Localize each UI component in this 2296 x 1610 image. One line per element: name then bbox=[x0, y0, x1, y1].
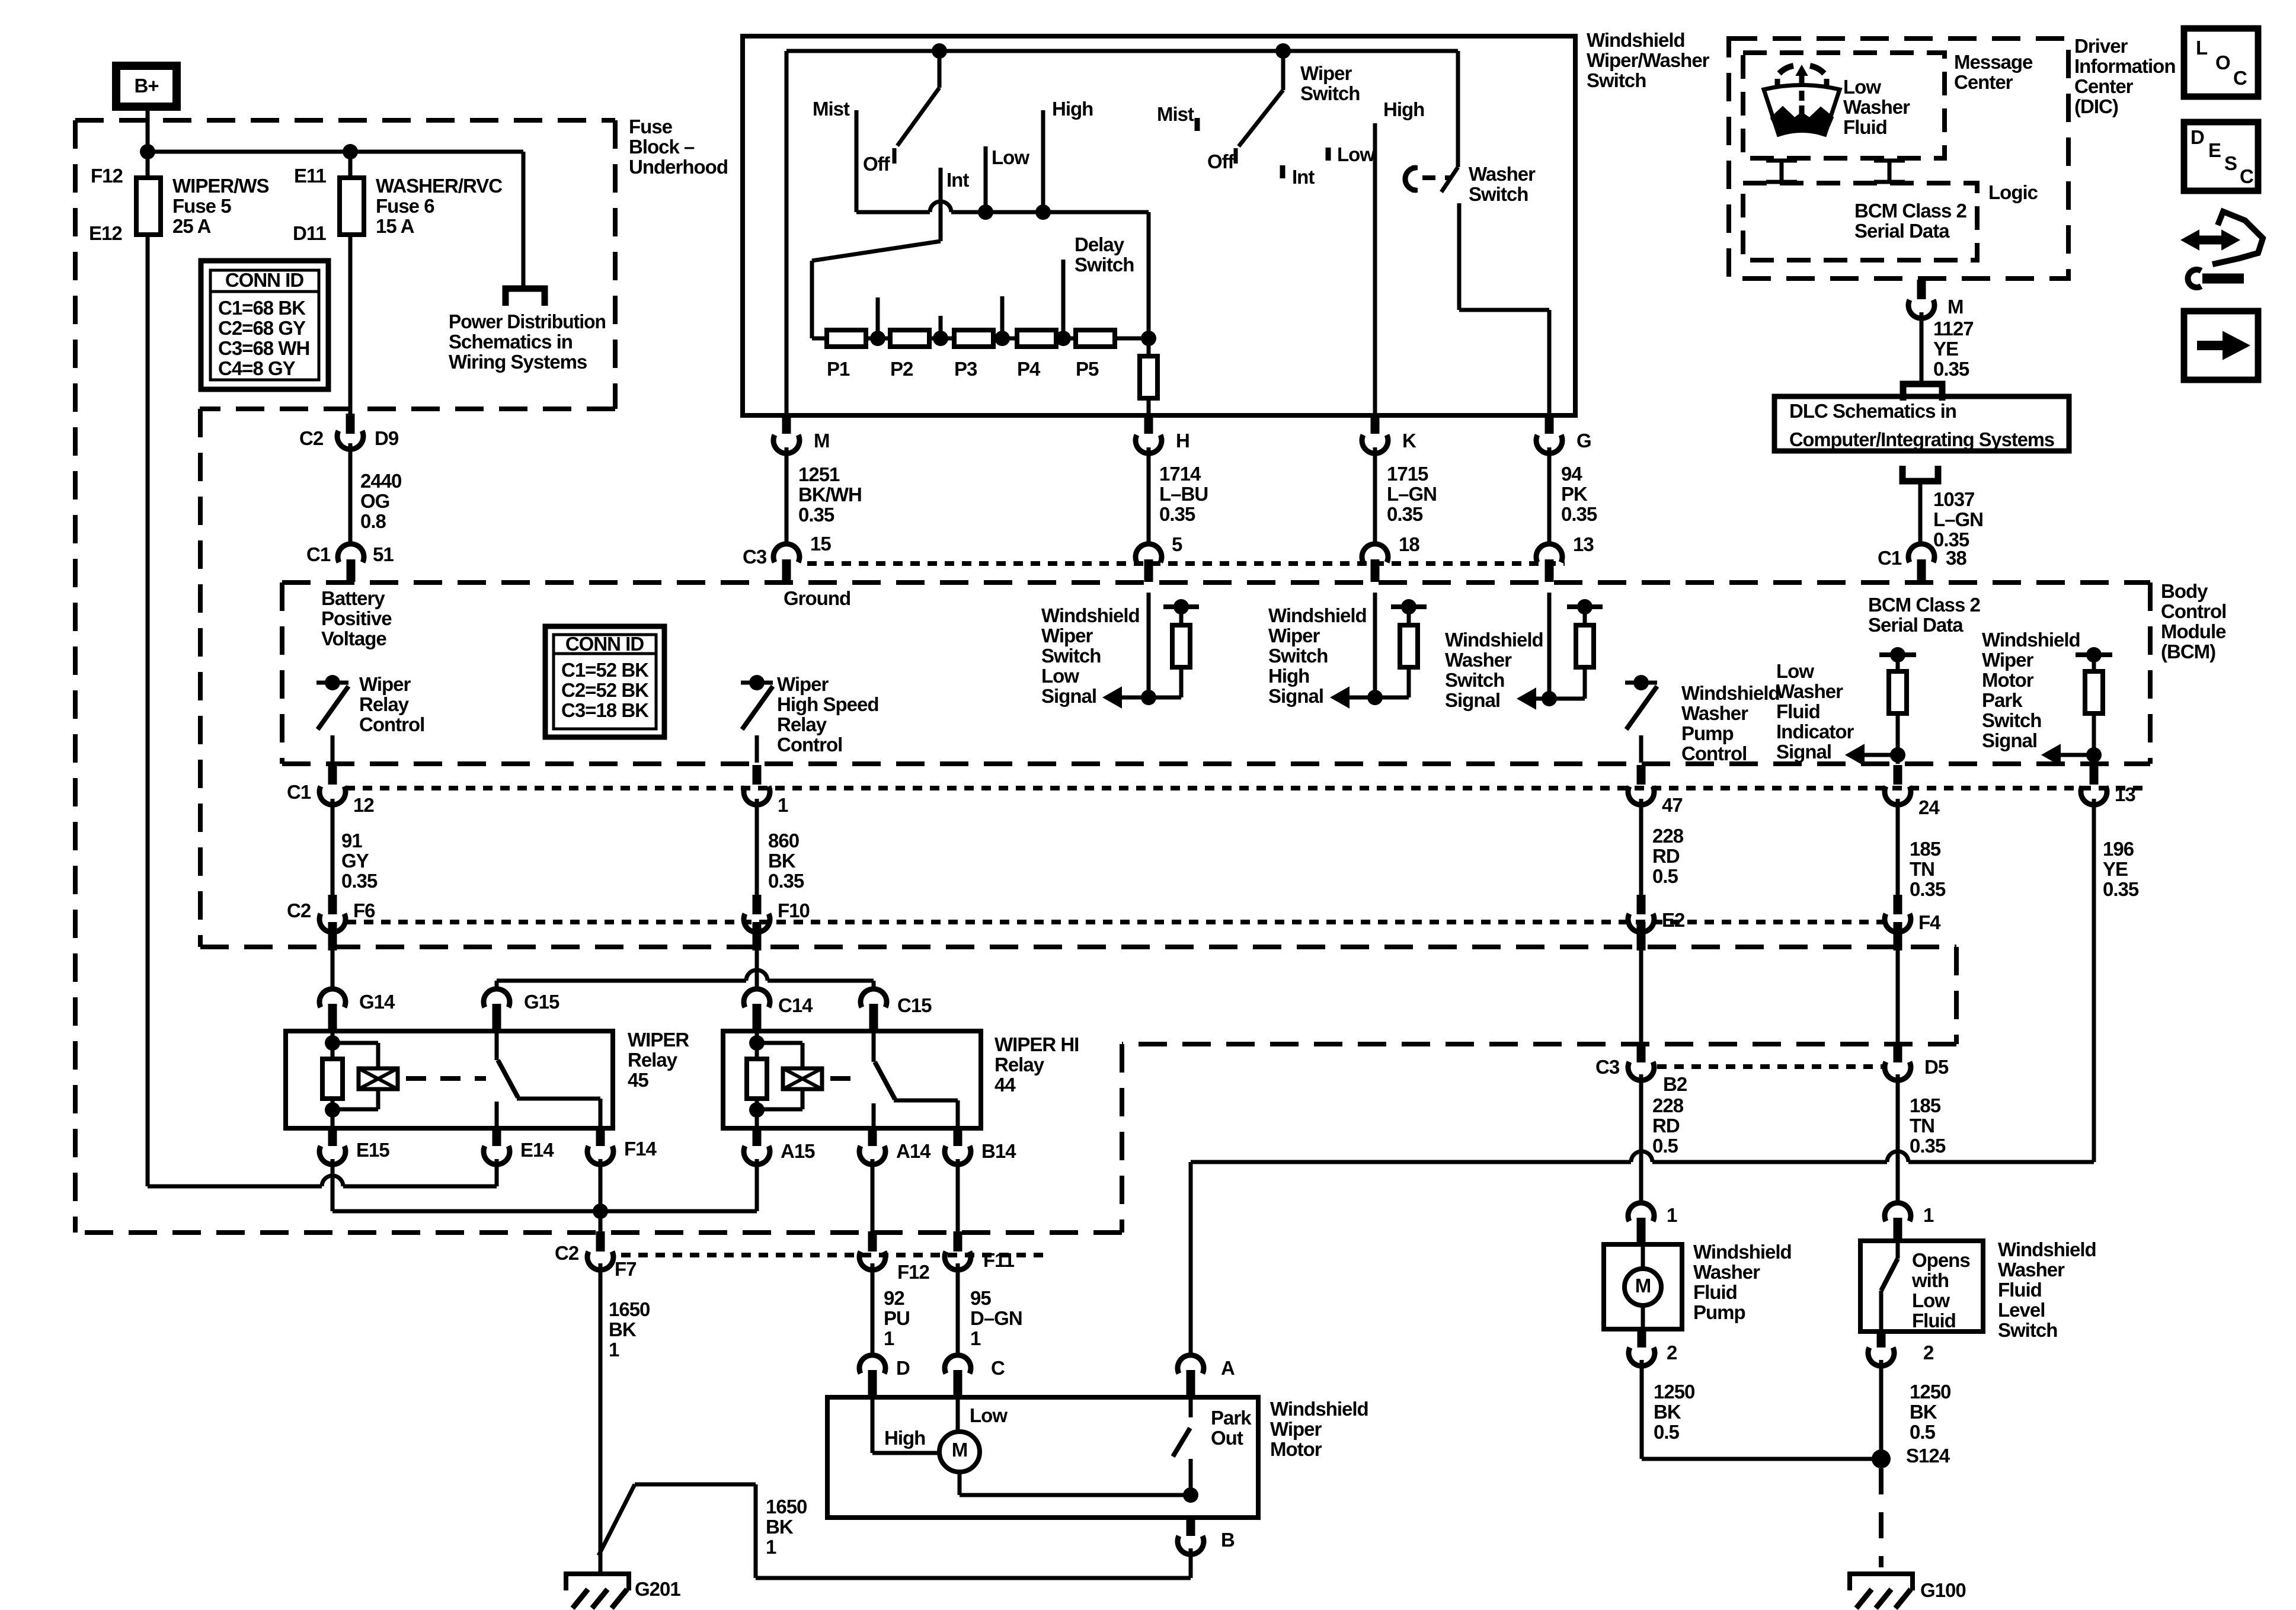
svg-text:15 A: 15 A bbox=[376, 215, 414, 237]
svg-text:0.5: 0.5 bbox=[1652, 1135, 1678, 1157]
svg-text:L–BU: L–BU bbox=[1159, 483, 1208, 505]
svg-text:BK: BK bbox=[766, 1516, 794, 1538]
svg-text:Low: Low bbox=[992, 146, 1029, 168]
svg-text:(BCM): (BCM) bbox=[2161, 641, 2215, 662]
motor M armature bbox=[939, 1432, 980, 1472]
wire 185 TN 0.35 into fuse block bbox=[1896, 950, 1900, 1043]
wire feed to power distribution reference bbox=[522, 152, 526, 287]
svg-text:2: 2 bbox=[1923, 1342, 1934, 1363]
svg-text:Low: Low bbox=[1337, 143, 1375, 165]
svg-text:Fuse 6: Fuse 6 bbox=[376, 195, 434, 217]
svg-text:BCM Class 2: BCM Class 2 bbox=[1868, 594, 1981, 616]
svg-text:Windshield: Windshield bbox=[1445, 629, 1543, 651]
position Int tick bbox=[1280, 165, 1285, 178]
BCM input pull-up resistor bbox=[1391, 604, 1427, 609]
svg-text:95: 95 bbox=[970, 1287, 991, 1309]
connector pin 2 (washer pump) bbox=[1638, 1330, 1646, 1347]
fuse block bottom inline connector line (dotted) bbox=[621, 1253, 1043, 1257]
contact Off stub bbox=[893, 148, 897, 164]
svg-text:0.35: 0.35 bbox=[1387, 503, 1423, 525]
BCM bottom inline connector line (dotted) bbox=[346, 786, 2145, 790]
svg-text:CONN ID: CONN ID bbox=[565, 633, 644, 655]
wire 228 RD 0.5 to pump bbox=[1639, 1074, 1643, 1205]
svg-text:C1: C1 bbox=[306, 543, 331, 565]
connector terminal G (wiper/washer switch) bbox=[1545, 417, 1554, 434]
svg-text:BK/WH: BK/WH bbox=[798, 484, 862, 505]
connector pin 1 (washer pump) bbox=[1628, 1203, 1654, 1221]
arrow signal into logic bbox=[2058, 753, 2094, 757]
svg-text:Control: Control bbox=[777, 734, 842, 756]
svg-text:M: M bbox=[952, 1439, 968, 1461]
svg-text:B14: B14 bbox=[981, 1140, 1016, 1162]
svg-text:Signal: Signal bbox=[1268, 685, 1323, 707]
svg-text:0.35: 0.35 bbox=[1159, 503, 1195, 525]
connector E15 (relay output) bbox=[328, 1129, 337, 1146]
wire S124 to G100 (dashed) bbox=[1879, 1468, 1884, 1567]
contact High bbox=[1041, 110, 1045, 212]
contact High (position bank) to K bbox=[1373, 123, 1377, 415]
connector terminal K (wiper/washer switch) bbox=[1371, 417, 1380, 434]
wire E15 to A15 bus bbox=[331, 1159, 335, 1211]
svg-text:M: M bbox=[1948, 296, 1964, 318]
svg-text:YE: YE bbox=[2103, 858, 2128, 880]
resistor P2 bbox=[890, 330, 929, 347]
pump motor M bbox=[1641, 1244, 1645, 1270]
svg-text:13: 13 bbox=[2115, 783, 2135, 805]
svg-text:Windshield: Windshield bbox=[1998, 1238, 2096, 1260]
svg-text:0.35: 0.35 bbox=[1933, 358, 1969, 380]
icon route arrows with wrench bbox=[2196, 236, 2224, 245]
svg-text:M: M bbox=[1635, 1275, 1651, 1297]
svg-text:G: G bbox=[1576, 430, 1591, 452]
relay 45 switch bbox=[495, 1031, 499, 1060]
off-page reference bracket out of DLC box bbox=[1902, 466, 1938, 481]
svg-text:L–GN: L–GN bbox=[1933, 508, 1983, 530]
svg-text:Park: Park bbox=[1982, 689, 2023, 711]
svg-text:D–GN: D–GN bbox=[970, 1307, 1022, 1329]
svg-text:S: S bbox=[2224, 152, 2237, 174]
connector B14 (relay output) bbox=[954, 1129, 962, 1146]
connector A15 (relay output) bbox=[753, 1129, 762, 1146]
svg-text:L: L bbox=[2196, 37, 2208, 59]
svg-text:E11: E11 bbox=[294, 165, 327, 187]
battery feed B+ box bbox=[116, 66, 177, 107]
svg-text:Switch: Switch bbox=[1300, 82, 1360, 104]
resistor P5 bbox=[1076, 330, 1115, 347]
wire B+ to fuse feed bus bbox=[146, 107, 150, 178]
windshield wiper motor box bbox=[827, 1397, 1258, 1518]
BCM pull-up resistor on signal line bbox=[1879, 652, 1916, 657]
park signal wire 196 YE crossing (hops) bbox=[1908, 1160, 2094, 1164]
svg-text:1: 1 bbox=[609, 1339, 619, 1361]
svg-text:0.35: 0.35 bbox=[2103, 878, 2139, 900]
svg-text:Logic: Logic bbox=[1988, 181, 2038, 203]
svg-text:Int: Int bbox=[1292, 166, 1315, 188]
svg-text:A15: A15 bbox=[781, 1140, 815, 1162]
svg-text:BK: BK bbox=[609, 1318, 637, 1340]
svg-text:Fluid: Fluid bbox=[1776, 700, 1820, 722]
contact Low bbox=[984, 146, 988, 212]
park switch bbox=[1189, 1397, 1193, 1417]
connector A14 (relay output) bbox=[868, 1129, 877, 1146]
svg-text:TN: TN bbox=[1910, 1115, 1934, 1137]
svg-text:Washer: Washer bbox=[1843, 96, 1910, 118]
fuse block underhood dashed outline (top box + lower relay section) bbox=[75, 118, 615, 123]
svg-text:15: 15 bbox=[810, 533, 831, 555]
relay K45 WIPER Relay box bbox=[286, 1031, 613, 1128]
svg-text:Signal: Signal bbox=[1982, 729, 2037, 751]
CONN ID table of BCM connectors bbox=[545, 626, 664, 737]
svg-text:WASHER/RVC: WASHER/RVC bbox=[376, 175, 502, 197]
connector pin 13 (BCM output) bbox=[2090, 765, 2099, 785]
svg-text:185: 185 bbox=[1910, 838, 1941, 860]
svg-text:0.35: 0.35 bbox=[1910, 878, 1946, 900]
svg-text:C15: C15 bbox=[897, 994, 932, 1016]
svg-text:E12: E12 bbox=[89, 222, 122, 244]
wire 91 GY 0.35 bbox=[331, 799, 335, 898]
svg-text:P2: P2 bbox=[890, 358, 913, 380]
svg-text:Wiper: Wiper bbox=[359, 673, 411, 695]
svg-text:Control: Control bbox=[2161, 600, 2226, 622]
svg-text:BCM Class 2: BCM Class 2 bbox=[1854, 200, 1967, 222]
connector pin 24 (BCM output) bbox=[1894, 765, 1902, 785]
wire motor low input bbox=[956, 1397, 960, 1433]
connector terminal C (wiper motor low) bbox=[945, 1355, 971, 1374]
svg-text:Low: Low bbox=[1041, 665, 1079, 687]
connector terminal M (DIC) bbox=[1917, 280, 1926, 299]
svg-text:Wiring Systems: Wiring Systems bbox=[449, 351, 587, 373]
icon LOC box bbox=[2184, 28, 2258, 97]
connector G15 (wiper relay common) bbox=[484, 989, 510, 1007]
svg-text:0.5: 0.5 bbox=[1910, 1421, 1936, 1443]
wire Int to delay resistor chain bbox=[812, 241, 941, 261]
svg-text:94: 94 bbox=[1561, 463, 1582, 485]
relay 44 suppressor branch bbox=[757, 1041, 802, 1045]
svg-text:45: 45 bbox=[628, 1069, 648, 1091]
svg-text:Switch: Switch bbox=[1998, 1319, 2057, 1341]
svg-text:L–GN: L–GN bbox=[1387, 483, 1437, 505]
svg-text:Control: Control bbox=[359, 713, 424, 735]
svg-text:Windshield: Windshield bbox=[1693, 1241, 1792, 1263]
BCM pull-up resistor on signal line bbox=[2076, 652, 2112, 657]
svg-text:1: 1 bbox=[1923, 1204, 1934, 1226]
BCM input pull-up resistor bbox=[1163, 604, 1199, 609]
svg-text:C: C bbox=[991, 1357, 1005, 1379]
connector C14 (wiper hi relay coil +) bbox=[744, 989, 770, 1007]
svg-text:GY: GY bbox=[341, 850, 369, 872]
svg-text:High: High bbox=[1268, 665, 1309, 687]
connector pin 13 (BCM washer switch signal) bbox=[1536, 544, 1562, 562]
windshield wiper/washer switch box bbox=[743, 36, 1575, 415]
svg-text:Center: Center bbox=[2074, 75, 2134, 97]
icon DESC box bbox=[2184, 122, 2258, 191]
svg-text:C1=52 BK: C1=52 BK bbox=[561, 659, 649, 681]
svg-text:G201: G201 bbox=[635, 1578, 680, 1600]
svg-text:H: H bbox=[1176, 430, 1189, 452]
svg-text:F4: F4 bbox=[1918, 911, 1941, 933]
svg-text:A14: A14 bbox=[896, 1140, 931, 1162]
svg-text:92: 92 bbox=[884, 1287, 904, 1309]
svg-text:C2=68 GY: C2=68 GY bbox=[218, 317, 306, 339]
wire 228 RD 0.5 bbox=[1639, 799, 1643, 913]
contact Mist bbox=[855, 110, 859, 212]
svg-text:Mist: Mist bbox=[1157, 103, 1194, 125]
svg-text:0.35: 0.35 bbox=[768, 870, 804, 892]
svg-text:Off: Off bbox=[863, 153, 891, 175]
svg-text:WIPER: WIPER bbox=[628, 1029, 689, 1051]
svg-text:Wiper: Wiper bbox=[1270, 1418, 1322, 1440]
svg-text:1: 1 bbox=[766, 1536, 776, 1558]
connector terminal D (wiper motor high) bbox=[859, 1355, 885, 1374]
wire 1250 BK 0.5 pump to S124 bbox=[1640, 1360, 1644, 1459]
svg-text:C1=68 BK: C1=68 BK bbox=[218, 297, 306, 319]
svg-text:Block –: Block – bbox=[629, 136, 695, 158]
connector C3 pin 15 (BCM ground) bbox=[773, 544, 800, 562]
svg-text:Switch: Switch bbox=[1445, 669, 1504, 691]
wire 1714 L-BU 0.35 bbox=[1147, 447, 1151, 546]
BCM driver switch bbox=[316, 681, 348, 685]
svg-text:Motor: Motor bbox=[1982, 669, 2034, 691]
delay switch contact bbox=[1061, 260, 1066, 338]
splice S124 bbox=[1872, 1449, 1891, 1468]
svg-text:Windshield: Windshield bbox=[1270, 1398, 1368, 1420]
wire 2440 OG 0.8 bbox=[348, 443, 353, 546]
wire 1715 L-GN 0.35 bbox=[1373, 447, 1377, 546]
wire F6 to G14 bbox=[331, 950, 335, 988]
wire B14 to F11 bbox=[956, 1159, 960, 1231]
svg-text:2: 2 bbox=[1667, 1342, 1677, 1363]
svg-text:C1: C1 bbox=[287, 781, 311, 803]
svg-text:Fluid: Fluid bbox=[1693, 1281, 1737, 1303]
svg-text:Positive: Positive bbox=[321, 607, 392, 629]
svg-text:1715: 1715 bbox=[1387, 463, 1428, 485]
svg-text:B: B bbox=[1221, 1529, 1235, 1551]
svg-text:860: 860 bbox=[768, 830, 799, 852]
svg-text:Low: Low bbox=[1843, 76, 1881, 98]
svg-text:High: High bbox=[1052, 98, 1093, 120]
svg-text:Ground: Ground bbox=[784, 587, 850, 609]
washer switch feed bbox=[1456, 51, 1460, 167]
connector pin 1 (fluid level switch) bbox=[1885, 1203, 1911, 1221]
relay 45 coil branch bbox=[331, 1031, 335, 1128]
wire 860 BK 0.35 bbox=[755, 799, 759, 898]
svg-text:Relay: Relay bbox=[994, 1054, 1045, 1076]
svg-text:12: 12 bbox=[353, 794, 374, 816]
svg-text:Information: Information bbox=[2074, 55, 2175, 77]
svg-text:F12: F12 bbox=[91, 165, 123, 187]
svg-text:13: 13 bbox=[1573, 533, 1594, 555]
windshield washer fluid level switch box bbox=[1860, 1241, 1983, 1331]
svg-text:P5: P5 bbox=[1076, 358, 1099, 380]
svg-text:High: High bbox=[1383, 98, 1424, 120]
DLC schematics reference box bbox=[1774, 396, 2069, 451]
resistor P4 bbox=[1017, 330, 1056, 347]
wire battery feed to E14 (hops E15 wire) bbox=[148, 1185, 322, 1189]
svg-text:C: C bbox=[2240, 165, 2253, 187]
svg-text:0.35: 0.35 bbox=[1910, 1135, 1946, 1157]
wire switch feed bus bbox=[786, 49, 1458, 53]
svg-text:Message: Message bbox=[1954, 51, 2033, 73]
contact Int wire bbox=[939, 168, 943, 241]
svg-text:C1: C1 bbox=[1878, 547, 1902, 569]
svg-text:Low: Low bbox=[970, 1404, 1008, 1426]
svg-text:Fuse 5: Fuse 5 bbox=[172, 195, 231, 217]
svg-text:Opens: Opens bbox=[1912, 1249, 1970, 1271]
svg-text:D: D bbox=[896, 1357, 910, 1379]
svg-text:38: 38 bbox=[1946, 547, 1966, 569]
svg-text:Washer: Washer bbox=[1469, 163, 1536, 185]
svg-text:BK: BK bbox=[768, 850, 796, 872]
svg-text:Indicator: Indicator bbox=[1776, 721, 1854, 742]
low washer fluid telltale icon bbox=[1764, 85, 1840, 135]
svg-text:Switch: Switch bbox=[1075, 254, 1134, 276]
wire G15-C15 link bbox=[495, 981, 499, 991]
svg-text:F11: F11 bbox=[983, 1249, 1015, 1271]
connector G14 (wiper relay coil +) bbox=[319, 989, 346, 1007]
svg-text:DLC Schematics in: DLC Schematics in bbox=[1789, 400, 1956, 422]
connector terminal H (wiper/washer switch) bbox=[1144, 417, 1153, 434]
svg-text:Low: Low bbox=[1912, 1289, 1950, 1311]
svg-text:0.5: 0.5 bbox=[1654, 1421, 1680, 1443]
svg-text:BK: BK bbox=[1910, 1401, 1937, 1423]
svg-text:Windshield: Windshield bbox=[1982, 629, 2080, 651]
wiper switch arm (mode contacts) bbox=[938, 51, 942, 88]
svg-text:5: 5 bbox=[1172, 533, 1182, 555]
svg-text:Power Distribution: Power Distribution bbox=[449, 311, 606, 332]
svg-text:C2: C2 bbox=[287, 900, 311, 921]
svg-text:Washer: Washer bbox=[1681, 702, 1748, 724]
windshield washer fluid pump box bbox=[1604, 1244, 1682, 1329]
wire 185 TN 0.35 bbox=[1896, 799, 1900, 913]
svg-text:25 A: 25 A bbox=[172, 215, 211, 237]
wire 196 YE 0.35 bbox=[2092, 799, 2096, 1162]
driver information center DIC dashed box bbox=[1729, 39, 2068, 279]
svg-text:Voltage: Voltage bbox=[321, 628, 386, 649]
off-page reference bracket into DLC box bbox=[1903, 384, 1942, 401]
connector pin 18 (BCM wiper high signal) bbox=[1362, 544, 1388, 562]
svg-text:WIPER HI: WIPER HI bbox=[994, 1033, 1079, 1055]
svg-text:Underhood: Underhood bbox=[629, 156, 728, 178]
relay 45 coil resistor bbox=[322, 1059, 343, 1099]
svg-text:Off: Off bbox=[1207, 151, 1235, 172]
svg-text:1: 1 bbox=[778, 794, 788, 816]
svg-text:C3=18 BK: C3=18 BK bbox=[561, 699, 649, 721]
links message center to logic bbox=[1780, 159, 1784, 183]
delay switch resistor chain P1-P5 bbox=[812, 337, 1149, 341]
svg-text:Wiper: Wiper bbox=[1982, 649, 2034, 671]
svg-text:G15: G15 bbox=[524, 991, 559, 1013]
connector F14 (relay output) bbox=[596, 1129, 605, 1146]
svg-text:C3: C3 bbox=[743, 546, 767, 568]
svg-text:18: 18 bbox=[1399, 533, 1419, 555]
fuse F6 WASHER/RVC 15A bbox=[348, 152, 353, 235]
resistor P3 bbox=[954, 330, 993, 347]
svg-text:P3: P3 bbox=[954, 358, 977, 380]
wire 1250 BK 0.5 level switch to S124 bbox=[1879, 1360, 1884, 1459]
connector C2 pin F6 (into fuse block) bbox=[331, 898, 335, 903]
svg-text:1714: 1714 bbox=[1159, 463, 1201, 485]
CONN ID table of fuse block connectors bbox=[201, 261, 328, 389]
svg-text:Switch: Switch bbox=[1982, 709, 2041, 731]
connector pin 2 (fluid level switch) bbox=[1877, 1333, 1886, 1347]
svg-text:Fluid: Fluid bbox=[1843, 116, 1887, 138]
svg-text:Center: Center bbox=[1954, 71, 2013, 93]
svg-text:TN: TN bbox=[1910, 858, 1934, 880]
svg-text:Level: Level bbox=[1998, 1299, 2045, 1321]
svg-text:24: 24 bbox=[1918, 796, 1940, 818]
svg-text:Relay: Relay bbox=[628, 1049, 678, 1071]
svg-text:Fuse: Fuse bbox=[629, 116, 673, 137]
svg-text:Switch: Switch bbox=[1587, 69, 1646, 91]
svg-text:O: O bbox=[2215, 52, 2230, 73]
svg-text:Wiper: Wiper bbox=[1300, 62, 1352, 84]
svg-text:Pump: Pump bbox=[1693, 1301, 1745, 1323]
svg-text:Mist: Mist bbox=[813, 98, 850, 120]
svg-text:1650: 1650 bbox=[609, 1298, 650, 1320]
svg-text:BK: BK bbox=[1654, 1401, 1681, 1423]
relay 44 coil symbol (boxed X) bbox=[783, 1068, 822, 1089]
svg-text:Control: Control bbox=[1681, 742, 1747, 764]
svg-text:Signal: Signal bbox=[1776, 741, 1831, 763]
off-page reference bracket to Power Distribution bbox=[506, 289, 545, 306]
svg-text:0.35: 0.35 bbox=[1561, 503, 1597, 525]
BCM input pull-up resistor bbox=[1567, 604, 1603, 609]
wiper switch position-indicator arm bbox=[1281, 51, 1285, 90]
wire 1650 BK 1 to G201 bbox=[599, 1263, 603, 1571]
washer switch actuator curl bbox=[1405, 168, 1416, 190]
svg-text:Body: Body bbox=[2161, 580, 2208, 602]
svg-text:Battery: Battery bbox=[321, 587, 385, 609]
connector pin F10 (into fuse block) bbox=[755, 898, 759, 903]
svg-text:C2=52 BK: C2=52 BK bbox=[561, 679, 649, 701]
svg-text:Motor: Motor bbox=[1270, 1438, 1322, 1460]
svg-text:F12: F12 bbox=[897, 1261, 930, 1283]
position Off stub bbox=[1234, 148, 1238, 164]
svg-text:F7: F7 bbox=[615, 1258, 637, 1280]
svg-text:51: 51 bbox=[373, 543, 394, 565]
svg-text:Delay: Delay bbox=[1075, 233, 1125, 255]
svg-text:Wiper: Wiper bbox=[1268, 625, 1320, 646]
connector C2 pin D9 (fuse block output) bbox=[346, 414, 355, 434]
svg-text:228: 228 bbox=[1652, 1094, 1684, 1116]
svg-text:1250: 1250 bbox=[1910, 1381, 1950, 1403]
svg-text:PU: PU bbox=[884, 1307, 910, 1329]
svg-text:D5: D5 bbox=[1924, 1056, 1949, 1078]
svg-text:Low: Low bbox=[1776, 660, 1814, 682]
wire A14 to F12 bbox=[871, 1159, 875, 1231]
connector pin 1 (BCM output) bbox=[753, 765, 762, 785]
svg-text:1: 1 bbox=[970, 1327, 981, 1349]
svg-text:RD: RD bbox=[1652, 845, 1680, 867]
svg-text:D: D bbox=[2191, 126, 2204, 148]
svg-text:WIPER/WS: WIPER/WS bbox=[172, 175, 269, 197]
svg-text:1: 1 bbox=[884, 1327, 894, 1349]
svg-text:Serial Data: Serial Data bbox=[1868, 614, 1964, 636]
svg-text:Signal: Signal bbox=[1445, 689, 1500, 711]
connector pin F4 (into fuse block) bbox=[1896, 898, 1900, 903]
svg-text:S124: S124 bbox=[1906, 1445, 1950, 1467]
fuse block inline connector line (dotted) bbox=[347, 920, 1888, 924]
svg-text:B+: B+ bbox=[134, 75, 158, 97]
connector terminal M (wiper/washer switch) bbox=[782, 417, 791, 434]
fuse block inline connector line at C3 (dotted) bbox=[1657, 1064, 1882, 1069]
svg-text:Windshield: Windshield bbox=[1041, 604, 1140, 626]
svg-text:P4: P4 bbox=[1017, 358, 1041, 380]
relay 44 switch bbox=[872, 1031, 876, 1062]
washer switch actuator dashes bbox=[1422, 175, 1450, 180]
svg-text:Relay: Relay bbox=[359, 693, 410, 715]
wire motor high input bbox=[871, 1397, 875, 1453]
